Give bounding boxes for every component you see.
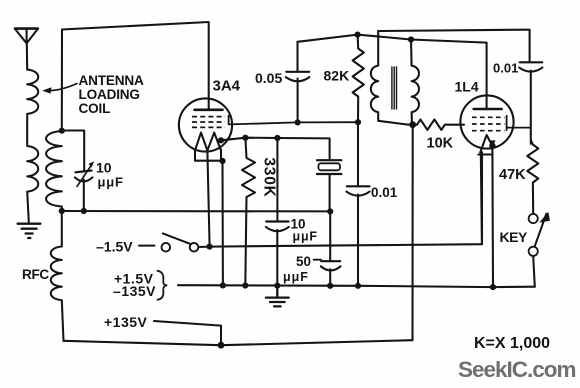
junction dot 82K bottom — [355, 119, 361, 125]
1L4 filament — [478, 135, 495, 244]
junction dot rail d — [355, 283, 361, 289]
svg-text:0.01: 0.01 — [371, 185, 398, 200]
junction dot rail left — [59, 208, 65, 214]
wire 3A4 filament ctr leg — [207, 151, 209, 247]
svg-text:47K: 47K — [499, 167, 526, 183]
svg-text:μμF: μμF — [293, 230, 318, 244]
junction dot +135V — [218, 342, 225, 349]
3A4 filament — [195, 133, 223, 161]
svg-text:82K: 82K — [324, 68, 350, 84]
brace — [158, 271, 167, 300]
tube 3A4 envelope — [179, 98, 232, 151]
wire 3A4 filament right leg — [221, 161, 223, 285]
variable capacitor 10uuF — [75, 161, 94, 211]
capacitor 0.05 — [286, 42, 310, 123]
svg-text:50: 50 — [296, 254, 311, 269]
label ANTENNA LOADING COIL — [79, 73, 144, 116]
svg-text:–1.5V: –1.5V — [96, 239, 133, 255]
svg-text:KEY: KEY — [500, 229, 528, 245]
svg-text:LOADING: LOADING — [79, 87, 140, 102]
label 50 uuF — [283, 254, 311, 284]
svg-text:0.01: 0.01 — [493, 61, 518, 76]
resistor 47K — [527, 140, 538, 214]
3A4 grid dashes — [192, 117, 225, 128]
junction dot transformer bottom — [409, 121, 416, 128]
junction dot rail right end — [327, 208, 333, 214]
wire ground rail y211 — [62, 210, 330, 212]
coil RFC — [51, 211, 64, 341]
transformer T1 core — [392, 67, 397, 109]
svg-text:RFC: RFC — [22, 267, 49, 282]
tube 1L4 envelope — [460, 95, 513, 148]
wire 1L4 filament right leg — [491, 146, 494, 287]
coil L2 tank — [46, 131, 62, 211]
wire filament tap to crystal — [221, 138, 330, 161]
junction dot 1L4 filament rail — [490, 284, 496, 290]
transformer T1 secondary — [411, 40, 419, 125]
resistor 330K — [242, 138, 255, 286]
junction dot 330K top — [242, 135, 248, 141]
label +1.5V -135V — [113, 271, 156, 300]
capacitor 0.01 mid — [346, 122, 369, 286]
resistor 10K — [413, 120, 464, 130]
wire bottom rail — [64, 340, 413, 345]
junction dot 0.05 bottom — [295, 119, 301, 125]
junction dot 330K bottom — [242, 282, 248, 288]
svg-text:10K: 10K — [427, 136, 454, 152]
1L4 grid lead — [507, 116, 531, 130]
wire +1.5V -135V rail — [178, 285, 535, 287]
wire -1.5V rail to 1L4 filament — [210, 152, 482, 246]
transformer T1 primary — [371, 31, 413, 125]
junction dot coil L2 top — [59, 128, 65, 134]
junction dot var cap bottom — [81, 208, 87, 214]
wire plate top rail to 0.01 — [378, 30, 529, 62]
capacitor 0.01 top right — [519, 62, 542, 144]
svg-text:COIL: COIL — [79, 101, 111, 116]
wire top-left rail to 3A4 plate — [62, 22, 209, 110]
junction dot 82K top — [355, 31, 361, 37]
svg-text:μμF: μμF — [98, 175, 124, 190]
crystal Y1 — [317, 160, 341, 211]
wire +135V feed — [154, 321, 221, 345]
ground antenna coil — [18, 224, 41, 238]
junction dot cap branch top — [274, 135, 280, 141]
3A4 grid lead — [229, 116, 358, 125]
junction dot 1L4 filament — [489, 143, 495, 149]
svg-text:3A4: 3A4 — [213, 78, 241, 95]
1L4 plate — [474, 108, 502, 111]
junction dot switch output — [207, 244, 213, 250]
wire -1.5V stub — [139, 245, 155, 247]
coil L1 antenna loading coil — [27, 70, 38, 223]
switch S1 filament — [162, 233, 210, 251]
label 10 uuF mid — [291, 217, 318, 244]
junction dot secondary top — [408, 36, 414, 42]
svg-text:–135V: –135V — [113, 283, 156, 299]
svg-text:K=X 1,000: K=X 1,000 — [474, 335, 550, 352]
junction dot rail a — [220, 282, 226, 288]
wire to variable capacitor — [62, 131, 84, 170]
junction dot 3A4 filament tap — [218, 137, 224, 143]
svg-text:0.05: 0.05 — [255, 70, 282, 86]
junction dot 3A4 filament right — [219, 158, 225, 164]
label 10 uuF variable — [96, 160, 124, 190]
svg-text:ANTENNA: ANTENNA — [79, 73, 144, 88]
leader arrow to coil — [42, 84, 77, 94]
junction dot rail c — [327, 283, 333, 289]
svg-text:10: 10 — [96, 160, 112, 176]
svg-text:1L4: 1L4 — [455, 79, 479, 95]
wire 3A4 plate tank rail — [298, 35, 487, 109]
switch KEY — [529, 212, 550, 287]
resistor 82K — [353, 35, 364, 123]
svg-text:SeekIC.com: SeekIC.com — [458, 357, 576, 382]
wire left vertical — [61, 30, 63, 131]
svg-text:330K: 330K — [261, 157, 278, 197]
capacitor 10uuF mid — [266, 138, 289, 286]
svg-text:+135V: +135V — [104, 314, 148, 330]
junction dot rail b — [274, 283, 280, 289]
wire +135V riser to transformer — [411, 125, 413, 341]
1L4 grid dashes — [472, 117, 505, 130]
svg-text:μμF: μμF — [283, 270, 309, 284]
3A4 plate — [195, 109, 223, 112]
ground filament bypass — [266, 286, 289, 307]
antenna — [15, 29, 38, 70]
capacitor 50uuF — [314, 211, 341, 285]
